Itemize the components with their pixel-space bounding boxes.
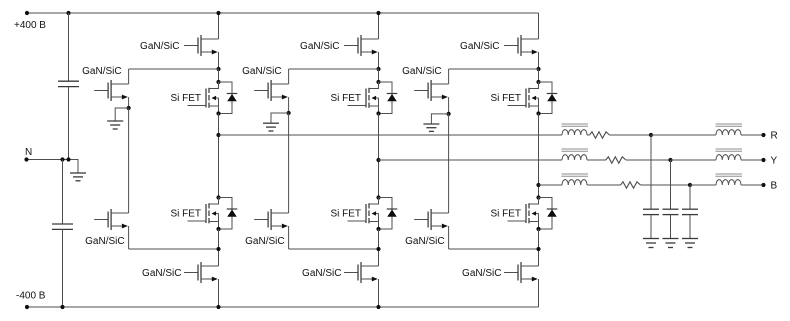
- wire: clamp midpoint to ground leg B: [431, 114, 448, 124]
- wire: clamp chain leg B: [448, 114, 450, 213]
- transistor Q2A high-side (GaN/SiC): [344, 45, 358, 47]
- wire: node A3 to clamp branch: [449, 68, 539, 70]
- transistor Q2D clamp-lower (GaN/SiC): [254, 219, 268, 221]
- ground clamp midpoint leg R: [107, 120, 123, 122]
- svg-text:GaN/SiC: GaN/SiC: [300, 41, 339, 52]
- wire: phase B spine: [538, 114, 540, 198]
- node: C1 / N junction: [66, 157, 70, 161]
- ground clamp midpoint leg Y: [263, 122, 279, 124]
- wire: RY to junction: [626, 159, 671, 161]
- capacitor C1 (upper DC-link): [58, 80, 79, 82]
- wire: Q1D source drop: [128, 226, 130, 249]
- wire: Q3C drain riser: [448, 69, 450, 84]
- wire: phase R spine: [218, 114, 220, 198]
- wire: Si FET lower to node B2: [378, 229, 380, 266]
- svg-text:GaN/SiC: GaN/SiC: [460, 41, 499, 52]
- svg-text:GaN/SiC: GaN/SiC: [462, 268, 501, 279]
- wire: Q1D source to node B1: [129, 248, 219, 250]
- svg-text:GaN/SiC: GaN/SiC: [140, 41, 179, 52]
- node: bottom rail / C2: [60, 305, 64, 309]
- node B2: [376, 247, 380, 251]
- diode: body diode of Q1E lower: [219, 198, 233, 230]
- wire: Q2A drain to +rail (leg Y): [378, 13, 380, 39]
- node: top rail / C1: [66, 11, 70, 15]
- transistor Q2C clamp-upper (GaN/SiC): [254, 90, 268, 92]
- transistor Q3A high-side (GaN/SiC): [504, 45, 518, 47]
- transistor Q1E lower (Si FET): [209, 198, 219, 205]
- transistor Q3B upper (Si FET): [529, 82, 539, 89]
- node: clamp midpoint leg R: [127, 106, 131, 110]
- inductor L2B: [716, 180, 741, 185]
- ground neutral point: [70, 172, 86, 174]
- wire: +400 B top rail: [27, 12, 539, 14]
- node: filter junction Y: [668, 158, 672, 162]
- wire: CR to ground: [650, 215, 652, 238]
- wire: Q1A source to node A1: [218, 52, 220, 69]
- wire: Si FET lower to node B3: [538, 229, 540, 266]
- svg-text:GaN/SiC: GaN/SiC: [82, 66, 121, 77]
- wire: filter drop Y: [670, 160, 672, 209]
- ground clamp midpoint leg B: [423, 123, 439, 125]
- transistor Q3D clamp-lower (GaN/SiC): [414, 219, 428, 221]
- diode: body diode of Q3B upper: [539, 82, 553, 114]
- wire: junction to L2R: [651, 134, 716, 136]
- wire: Q2F source to -rail: [378, 279, 380, 307]
- wire: L1B to RB: [587, 184, 621, 186]
- wire: Q3D source to node B3: [449, 248, 539, 250]
- node: C2 / N junction: [60, 157, 64, 161]
- wire: Q3D source drop: [448, 226, 450, 249]
- wire: node A1 to Si FET upper: [218, 69, 220, 82]
- node: drain of Q1E lower: [216, 195, 220, 199]
- svg-text:GaN/SiC: GaN/SiC: [302, 268, 341, 279]
- node: source of Q2B upper: [376, 111, 380, 115]
- wire: node A1 to clamp branch: [129, 68, 219, 70]
- wire: L2R to terminal R: [741, 134, 762, 136]
- node: clamp midpoint leg B: [447, 112, 451, 116]
- diode: body diode of Q2E lower: [379, 198, 393, 230]
- wire: phase Y spine: [378, 114, 380, 198]
- wire: node A2 to Si FET upper: [378, 69, 380, 82]
- svg-text:Si FET: Si FET: [330, 209, 361, 220]
- node: phase Y output tap: [376, 158, 380, 162]
- inductor L1R: [562, 130, 587, 135]
- svg-text:Y: Y: [771, 156, 778, 167]
- node: phase R output tap: [216, 133, 220, 137]
- svg-text:Si FET: Si FET: [170, 209, 201, 220]
- node: output terminal Y: [761, 158, 765, 162]
- wire: Q1C source drop: [128, 97, 130, 108]
- resistor RR damping: [590, 132, 610, 138]
- node A1: [216, 67, 220, 71]
- svg-text:-400 B: -400 B: [16, 291, 46, 302]
- node: drain of Q3E lower: [536, 195, 540, 199]
- svg-text:N: N: [25, 147, 32, 158]
- wire: Si FET lower to node B1: [218, 229, 220, 266]
- node: source of Q2E lower: [376, 227, 380, 231]
- transistor Q1D clamp-lower (GaN/SiC): [94, 219, 108, 221]
- wire: neutral N line: [27, 159, 79, 161]
- svg-text:GaN/SiC: GaN/SiC: [85, 236, 124, 247]
- wire: CY to ground: [670, 215, 672, 238]
- node: filter junction B: [688, 183, 692, 187]
- transistor Q2F low-side (GaN/SiC): [344, 272, 358, 274]
- node: source of Q3E lower: [536, 227, 540, 231]
- capacitor CB filter: [682, 208, 698, 210]
- wire: RR to junction: [610, 134, 652, 136]
- wire: L1Y to RY: [587, 159, 606, 161]
- diode: body diode of Q1B upper: [219, 82, 233, 114]
- ground filter R: [643, 238, 659, 240]
- node A2: [376, 67, 380, 71]
- svg-text:B: B: [771, 181, 778, 192]
- node: drain of Q2E lower: [376, 195, 380, 199]
- wire: Q3C source drop: [448, 97, 450, 114]
- capacitor CY filter: [663, 208, 679, 210]
- node: drain of Q3B upper: [536, 80, 540, 84]
- node: source of Q1B upper: [216, 111, 220, 115]
- wire: C2 lower lead: [62, 229, 64, 307]
- node: clamp midpoint leg Y: [287, 111, 291, 115]
- wire: Q3A source to node A3: [538, 52, 540, 69]
- svg-text:+400 B: +400 B: [14, 20, 46, 31]
- transistor Q1C clamp-upper (GaN/SiC): [94, 90, 108, 92]
- inductor L1Y: [562, 155, 587, 160]
- transistor Q3F low-side (GaN/SiC): [504, 272, 518, 274]
- wire: CB to ground: [689, 215, 691, 238]
- wire: Q2C source drop: [288, 97, 290, 113]
- inductor L2R: [716, 130, 741, 135]
- wire: C1 upper lead: [68, 13, 70, 81]
- wire: phase B line to filter: [539, 184, 563, 186]
- transistor Q2E lower (Si FET): [369, 198, 379, 205]
- ground filter B: [682, 238, 698, 240]
- node: N terminal: [24, 157, 28, 161]
- node: source of Q3B upper: [536, 111, 540, 115]
- node: output terminal B: [761, 183, 765, 187]
- wire: clamp midpoint to ground leg R: [115, 108, 128, 121]
- wire: Q1F source to -rail: [218, 279, 220, 307]
- svg-text:GaN/SiC: GaN/SiC: [402, 66, 441, 77]
- diode: body diode of Q2B upper: [379, 82, 393, 114]
- node: filter junction R: [649, 133, 653, 137]
- wire: L2Y to terminal Y: [741, 159, 762, 161]
- inductor L1B: [562, 180, 587, 185]
- node: drain of Q1B upper: [216, 80, 220, 84]
- transistor Q2B upper (Si FET): [369, 82, 379, 89]
- wire: RB to junction: [641, 184, 691, 186]
- svg-text:GaN/SiC: GaN/SiC: [142, 268, 181, 279]
- wire: Q3A drain to +rail (leg B): [538, 13, 540, 39]
- transistor Q3E lower (Si FET): [529, 198, 539, 205]
- transistor Q3C clamp-upper (GaN/SiC): [414, 90, 428, 92]
- wire: node A2 to clamp branch: [289, 68, 379, 70]
- wire: clamp chain leg Y: [288, 113, 290, 213]
- transistor Q1F low-side (GaN/SiC): [184, 272, 198, 274]
- capacitor C2 (lower DC-link): [52, 223, 73, 225]
- node: output terminal R: [761, 133, 765, 137]
- wire: Q2A source to node A2: [378, 52, 380, 69]
- node A3: [536, 67, 540, 71]
- svg-text:Si FET: Si FET: [490, 209, 521, 220]
- wire: Q1C drain riser: [128, 69, 130, 84]
- node: -rail junction leg R: [216, 305, 220, 309]
- wire: Q2D source to node B2: [289, 248, 379, 250]
- wire: C1 lower lead: [68, 87, 70, 160]
- svg-text:Si FET: Si FET: [170, 93, 201, 104]
- wire: C2 upper lead: [62, 160, 64, 225]
- wire: L2B to terminal B: [741, 184, 762, 186]
- node B1: [216, 247, 220, 251]
- wire: L1R to RR: [587, 134, 590, 136]
- wire: filter drop B: [689, 185, 691, 209]
- svg-text:R: R: [771, 131, 778, 142]
- svg-text:GaN/SiC: GaN/SiC: [242, 66, 281, 77]
- node B3: [536, 247, 540, 251]
- transistor Q1A high-side (GaN/SiC): [184, 45, 198, 47]
- svg-text:Si FET: Si FET: [330, 93, 361, 104]
- node: -400 B terminal: [25, 305, 29, 309]
- wire: clamp midpoint to ground leg Y: [271, 113, 289, 123]
- wire: Q2C drain riser: [288, 69, 290, 84]
- wire: phase R line to filter: [219, 134, 563, 136]
- wire: Q2D source drop: [288, 226, 290, 249]
- svg-text:GaN/SiC: GaN/SiC: [245, 236, 284, 247]
- node: phase B output tap: [536, 183, 540, 187]
- node: +rail junction leg R: [216, 11, 220, 15]
- resistor RB damping: [621, 182, 641, 188]
- node: source of Q1E lower: [216, 227, 220, 231]
- transistor Q1B upper (Si FET): [209, 82, 219, 89]
- svg-text:GaN/SiC: GaN/SiC: [405, 236, 444, 247]
- diode: body diode of Q3E lower: [539, 198, 553, 230]
- wire: phase Y line to filter: [379, 159, 563, 161]
- wire: junction to L2Y: [671, 159, 717, 161]
- wire: node A3 to Si FET upper: [538, 69, 540, 82]
- node: drain of Q2B upper: [376, 80, 380, 84]
- node: +400 B terminal: [25, 11, 29, 15]
- node: -rail junction leg Y: [376, 305, 380, 309]
- svg-text:Si FET: Si FET: [490, 93, 521, 104]
- ground: neutral point stem: [69, 160, 78, 173]
- wire: Q3F source to -rail: [538, 279, 540, 307]
- node: +rail junction leg Y: [376, 11, 380, 15]
- capacitor CR filter: [643, 208, 659, 210]
- inductor L2Y: [716, 155, 741, 160]
- ground filter Y: [663, 238, 679, 240]
- wire: clamp chain leg R: [128, 108, 130, 213]
- wire: filter drop R: [650, 135, 652, 209]
- resistor RY damping: [606, 157, 626, 163]
- wire: Q1A drain to +rail (leg R): [218, 13, 220, 39]
- wire: -400 B bottom rail: [27, 306, 539, 308]
- wire: junction to L2B: [690, 184, 716, 186]
